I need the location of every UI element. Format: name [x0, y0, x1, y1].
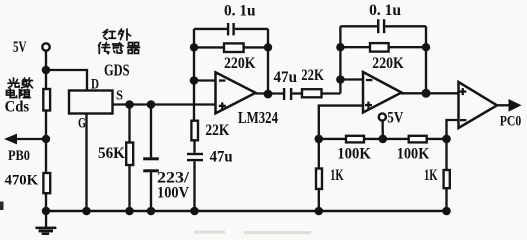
svg-text:470K: 470K — [5, 172, 39, 188]
wire 0.1u stage2 top left segment — [340, 25, 377, 27]
wire opamp3 output — [497, 104, 510, 106]
op-amp U1B LM324 triangle — [363, 72, 402, 113]
node junction at 5V branch — [42, 66, 51, 75]
op-amp U1A LM324 triangle — [216, 72, 256, 113]
wire 0.1u stage2 top right segment — [385, 25, 426, 27]
label 传感器 (sensor) chars — [99, 43, 140, 54]
opamp1 plus sign — [219, 102, 226, 109]
char 敏 — [22, 78, 33, 88]
opamp1 minus sign — [219, 79, 225, 81]
wire right 1K to rail — [445, 188, 447, 211]
opamp3 minus sign — [460, 119, 466, 121]
wire right 1K top lead — [445, 139, 447, 170]
wire 47u to 22K coupling — [292, 92, 302, 94]
wire 0.1u top left segment — [194, 28, 227, 30]
scan artifact left edge — [0, 202, 4, 211]
svg-text:PC0: PC0 — [500, 113, 522, 129]
resistor Cds photoresistor — [43, 89, 50, 111]
node divider left junction — [315, 135, 324, 144]
node rail-left junction — [42, 207, 50, 215]
node rail 223 junction — [147, 207, 156, 216]
svg-text:S: S — [116, 89, 123, 104]
wire 220K stage2 left lead — [340, 46, 370, 48]
terminal 5V reference — [379, 113, 386, 120]
node rail 1K-right junction — [442, 207, 451, 216]
node rail G junction — [82, 207, 91, 216]
node feedback right 220K — [264, 43, 272, 51]
svg-text:47u: 47u — [274, 69, 298, 86]
node feedback left 220K — [190, 43, 198, 51]
node stage2 feedback left — [336, 43, 344, 51]
wire pin G to rail — [85, 114, 87, 212]
wire opamp2 plus input L-path — [319, 106, 363, 139]
wire 47u to rail — [193, 161, 195, 211]
node opamp1 minus input — [190, 76, 199, 85]
wire 0.1u top right segment — [235, 28, 268, 30]
char 电 — [7, 89, 17, 98]
wire node to D pin — [46, 70, 87, 91]
node 56K junction on S wire — [125, 100, 134, 109]
wire PB0 arrow line — [14, 138, 46, 140]
op-amp U1C comparator triangle — [459, 82, 498, 128]
node stage2 feedback right — [422, 43, 430, 51]
wire divider row left segment — [319, 138, 346, 140]
resistor R 56K — [126, 143, 133, 166]
svg-text:1K: 1K — [330, 167, 344, 184]
wire minus input — [194, 79, 216, 81]
resistor R 1K left — [316, 169, 322, 190]
svg-text:LM324: LM324 — [238, 108, 278, 127]
wire opamp2 minus input — [340, 78, 363, 80]
svg-text:100K: 100K — [337, 145, 371, 162]
svg-text:100K: 100K — [397, 145, 430, 162]
svg-text:Cds: Cds — [5, 99, 30, 116]
wire S node down to 56K — [128, 105, 130, 143]
sensor GDS box U-GDS — [69, 91, 113, 114]
wire 223 to rail — [150, 172, 152, 211]
ground symbol — [35, 211, 56, 235]
wire 220K stage2 right lead — [389, 46, 426, 48]
svg-text:47u: 47u — [210, 149, 233, 166]
opamp3 plus sign — [459, 88, 466, 95]
ground rail wire (bottom) — [45, 210, 447, 212]
arrow PC0 output head — [509, 99, 522, 112]
wire 100K right to right node — [427, 138, 447, 140]
caption remnant marks (faint) — [194, 231, 311, 235]
svg-text:0. 1u: 0. 1u — [369, 2, 401, 19]
wire 220K left lead — [194, 46, 224, 48]
capacitor C 47u vertical plates — [187, 153, 203, 161]
node divider mid junction — [379, 135, 388, 144]
wire 5V terminal to node — [45, 51, 47, 89]
svg-text:56K: 56K — [98, 145, 126, 162]
wire left 1K top lead — [318, 139, 320, 169]
wire 56K to rail — [128, 165, 130, 211]
opamp2 minus sign — [366, 79, 372, 81]
char 光 — [8, 78, 19, 88]
svg-text:22K: 22K — [205, 122, 229, 139]
resistor R 100K right — [409, 136, 427, 143]
wire opamp2 feedback left vertical — [339, 26, 341, 93]
svg-text:5V: 5V — [387, 110, 403, 127]
resistor R 22K stage1 vertical — [191, 121, 198, 141]
char 阻 — [20, 89, 31, 98]
svg-text:PB0: PB0 — [8, 148, 30, 164]
wire Cds to PB0 node — [45, 111, 47, 174]
capacitor C 0.1u stage2 plates — [377, 19, 385, 33]
wire left 1K to rail — [318, 189, 320, 211]
svg-text:100V: 100V — [157, 185, 189, 202]
node opamp2 output junction — [422, 89, 431, 98]
char 外 — [119, 29, 131, 40]
node rail 56K junction — [125, 207, 134, 216]
capacitor C 47u coupling plates — [283, 88, 292, 100]
resistor R 22K coupling horizontal — [302, 89, 322, 97]
wire 22K to 47u — [193, 140, 195, 153]
label 红外 (infrared) chars — [104, 29, 131, 40]
arrow PB0 head — [4, 134, 17, 145]
wire opamp1 feedback right vertical — [267, 29, 269, 94]
wire 470K to rail — [45, 193, 47, 211]
svg-text:GDS: GDS — [104, 61, 130, 80]
capacitor C 223/100V plates — [143, 157, 159, 172]
wire 22K to stage2 input node — [322, 92, 341, 94]
node rail 1K-left junction — [315, 207, 324, 216]
svg-text:1K: 1K — [424, 167, 438, 184]
char 器 — [128, 43, 140, 54]
node rail 47u junction — [190, 207, 199, 216]
wire opamp1 feedback left vertical — [193, 29, 195, 121]
svg-text:D: D — [91, 77, 99, 93]
resistor R 220K stage1 — [224, 43, 244, 52]
node opamp2 minus input — [336, 75, 345, 84]
resistor R 220K stage2 — [370, 43, 389, 52]
wire opamp2 feedback right vertical — [425, 26, 427, 93]
wire 5V terminal to divider node — [381, 121, 384, 139]
wire opamp3 minus input L-path — [447, 120, 459, 139]
node divider right junction — [442, 135, 451, 144]
resistor R 100K left — [346, 136, 364, 143]
opamp2 plus sign — [365, 102, 372, 109]
label 光敏 (photo) chars — [7, 78, 33, 98]
svg-text:5V: 5V — [13, 39, 27, 56]
resistor R 470K — [43, 173, 50, 193]
node 223 junction on S wire — [147, 100, 156, 109]
wire 100K left to mid node — [364, 138, 409, 140]
terminal 5V (left supply) — [42, 43, 49, 50]
wire pin S to opamp1 plus input — [113, 103, 216, 105]
svg-text:G: G — [78, 115, 86, 131]
svg-text:22K: 22K — [301, 67, 324, 84]
capacitor C 0.1u stage1 plates — [227, 23, 235, 35]
node PB0 junction — [42, 135, 50, 143]
wire 220K right lead — [244, 46, 268, 48]
char 红 — [104, 30, 116, 40]
wire opamp2 output to opamp3 plus — [401, 92, 459, 94]
svg-text:220K: 220K — [224, 55, 256, 72]
char 感 — [113, 43, 124, 53]
char 传 — [99, 43, 110, 54]
wire S node down to capacitor 223 — [150, 105, 152, 158]
wire opamp1 output — [256, 92, 284, 94]
node opamp1 output junction — [264, 90, 273, 99]
resistor R 1K right — [444, 170, 450, 188]
svg-text:220K: 220K — [372, 55, 404, 72]
svg-text:0. 1u: 0. 1u — [224, 2, 256, 19]
